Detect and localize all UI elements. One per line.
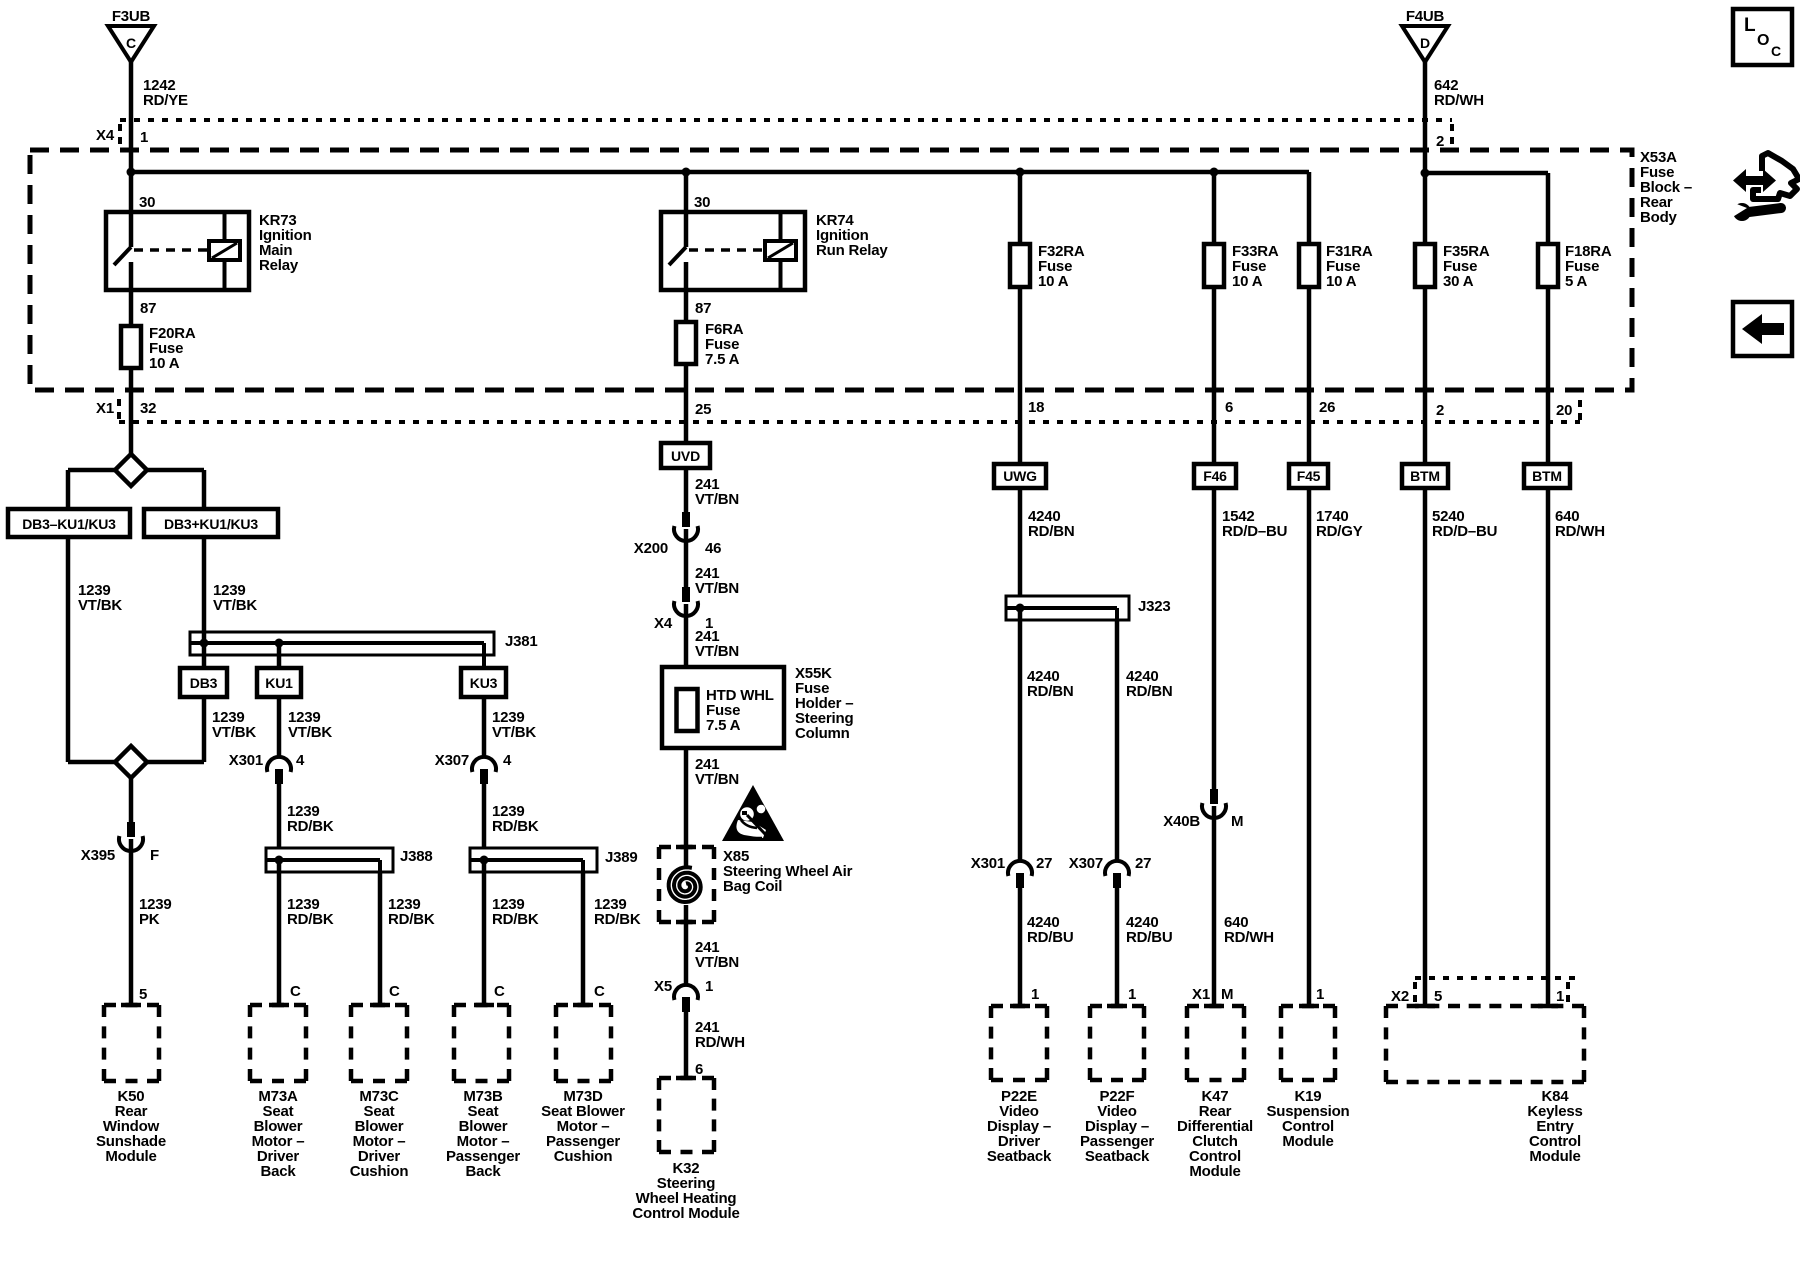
svg-text:RD/BK: RD/BK xyxy=(287,818,334,835)
wire branch F4UB to F18RA xyxy=(1425,173,1548,244)
wire label 1239 RD/BK to M73A xyxy=(287,896,334,928)
wire UWG to J323 xyxy=(1018,488,1023,596)
node box BTM left xyxy=(1402,464,1448,488)
svg-text:10 A: 10 A xyxy=(1232,273,1263,290)
svg-text:RD/WH: RD/WH xyxy=(1555,523,1605,540)
svg-text:L: L xyxy=(1744,15,1756,36)
svg-text:RD/D–BU: RD/D–BU xyxy=(1432,523,1497,540)
fuse F35RA label xyxy=(1443,243,1490,290)
wire pin30 into KR74 xyxy=(684,172,689,247)
wire X55K to X85 xyxy=(684,748,689,869)
svg-text:X40B: X40B xyxy=(1163,813,1200,830)
svg-text:C: C xyxy=(389,983,400,1000)
label X53A Fuse Block - Rear Body xyxy=(1640,149,1692,226)
component X85 dashed box xyxy=(659,847,714,922)
label X85 Steering Wheel Air Bag Coil xyxy=(723,848,853,895)
svg-text:1: 1 xyxy=(1031,986,1039,1003)
svg-text:VT/BN: VT/BN xyxy=(695,643,739,660)
wire label 1542 RD/D-BU xyxy=(1222,508,1287,540)
svg-text:Cushion: Cushion xyxy=(554,1148,613,1165)
label K47 Rear Differential Clutch Control Module xyxy=(1177,1088,1253,1180)
wire label 241 VT/BN (1) xyxy=(695,476,739,508)
wire F20RA to X1 pin 32 xyxy=(129,368,134,454)
label P22F Video Display Passenger Seatback xyxy=(1080,1088,1154,1165)
wire label 1239 VT/BK left xyxy=(78,582,122,614)
airbag warning triangle xyxy=(722,785,784,841)
label K50 Rear Window Sunshade Module xyxy=(96,1088,166,1165)
fuse block X53A dashed outline xyxy=(30,150,1632,390)
connector X5 symbol xyxy=(674,985,698,1012)
svg-text:J323: J323 xyxy=(1138,598,1171,615)
connector X1 end bracket right xyxy=(1578,400,1582,422)
connector X395 symbol xyxy=(119,822,143,851)
fuse F33RA label xyxy=(1232,243,1279,290)
svg-text:Back: Back xyxy=(465,1163,501,1180)
svg-text:RD/WH: RD/WH xyxy=(1434,92,1484,109)
svg-text:VT/BN: VT/BN xyxy=(695,580,739,597)
wire label 1239 RD/BK (above J388) xyxy=(287,803,334,835)
harness routing icon (arrows and wrench) xyxy=(1729,153,1799,221)
wire label 640 RD/WH (K47) xyxy=(1224,914,1274,946)
svg-text:J389: J389 xyxy=(605,849,638,866)
node box KU3 xyxy=(461,668,506,697)
svg-text:X4: X4 xyxy=(654,615,673,632)
svg-text:C: C xyxy=(126,35,136,51)
svg-text:RD/WH: RD/WH xyxy=(1224,929,1274,946)
junction node at KR74 xyxy=(682,168,691,177)
wire bus drop to F31RA xyxy=(1307,172,1312,244)
svg-text:6: 6 xyxy=(1225,399,1233,416)
svg-text:F: F xyxy=(150,847,159,864)
svg-text:F4UB: F4UB xyxy=(1406,8,1445,25)
junction node J389 xyxy=(480,856,489,865)
wire F31RA to F45 xyxy=(1307,287,1312,464)
svg-text:RD/YE: RD/YE xyxy=(143,92,188,109)
wire bus to F33RA xyxy=(1212,172,1217,244)
wire label 1239 RD/BK to M73D xyxy=(594,896,641,928)
wire label 1239 VT/BK below KU1 xyxy=(288,709,332,741)
svg-text:Seatback: Seatback xyxy=(987,1148,1052,1165)
svg-text:87: 87 xyxy=(140,300,156,317)
wire label 241 RD/WH xyxy=(695,1019,745,1051)
svg-text:F46: F46 xyxy=(1203,468,1227,484)
svg-text:Module: Module xyxy=(1282,1133,1333,1150)
svg-text:X1: X1 xyxy=(96,400,114,417)
label M73C Seat Blower Motor Driver Cushion xyxy=(350,1088,409,1180)
svg-text:1: 1 xyxy=(1128,986,1136,1003)
connector X4 end bracket right xyxy=(1450,124,1454,146)
svg-text:30: 30 xyxy=(139,194,155,211)
junction node J381 DB3 xyxy=(200,639,209,648)
component P22E dashed box xyxy=(991,1006,1047,1080)
wire label 4240 RD/BN (top) xyxy=(1028,508,1075,540)
fuse F32RA label xyxy=(1038,243,1085,290)
connector X2 end bracket right xyxy=(1566,982,1570,1002)
wire BTM right to X2 xyxy=(1546,488,1551,1006)
svg-text:DB3: DB3 xyxy=(190,675,218,691)
relay KR74 switch blade xyxy=(669,247,686,265)
svg-text:RD/BN: RD/BN xyxy=(1027,683,1074,700)
svg-text:C: C xyxy=(290,983,301,1000)
svg-text:30 A: 30 A xyxy=(1443,273,1474,290)
wire F35RA to BTM xyxy=(1423,287,1428,464)
svg-text:2: 2 xyxy=(1436,133,1444,150)
svg-text:30: 30 xyxy=(694,194,710,211)
svg-text:RD/BK: RD/BK xyxy=(492,818,539,835)
svg-text:20: 20 xyxy=(1556,402,1572,419)
svg-text:10 A: 10 A xyxy=(1038,273,1069,290)
connector X301 pin27 symbol xyxy=(1008,861,1032,888)
connector X307 pin27 symbol xyxy=(1105,861,1129,888)
connector X200 symbol xyxy=(674,512,698,541)
svg-text:RD/WH: RD/WH xyxy=(695,1034,745,1051)
wire F3UB down to X4 xyxy=(129,62,134,120)
svg-text:X200: X200 xyxy=(634,540,668,557)
svg-text:1: 1 xyxy=(1556,988,1564,1005)
fuse F18RA xyxy=(1538,244,1558,287)
entry tick X85 top xyxy=(676,845,696,850)
wire BTM left to X2 xyxy=(1423,488,1428,1006)
svg-text:Back: Back xyxy=(260,1163,296,1180)
svg-text:Relay: Relay xyxy=(259,257,299,274)
wire label 4240 RD/BU left xyxy=(1027,914,1074,946)
wire F45 to K19 xyxy=(1307,488,1312,1006)
label M73B Seat Blower Motor Passenger Back xyxy=(446,1088,520,1180)
component K84 dashed box xyxy=(1386,1006,1584,1082)
power triangle F4UB (D) xyxy=(1402,8,1448,62)
svg-text:RD/BU: RD/BU xyxy=(1027,929,1074,946)
wire J381 to KU1 box xyxy=(277,643,282,668)
svg-text:RD/GY: RD/GY xyxy=(1316,523,1363,540)
label M73D Seat Blower Motor Passenger Cushion xyxy=(541,1088,625,1165)
component M73B dashed box xyxy=(454,1005,509,1081)
svg-text:46: 46 xyxy=(705,540,721,557)
entry tick X85 bottom xyxy=(676,920,696,925)
node box F45 xyxy=(1289,464,1328,488)
back arrow icon xyxy=(1733,302,1792,356)
fuse F20RA label xyxy=(149,325,196,372)
svg-text:C: C xyxy=(1771,43,1781,59)
junction node at F4UB xyxy=(1421,169,1430,178)
label K32 Steering Wheel Heating Control Module xyxy=(632,1160,739,1222)
relay KR74 coil xyxy=(765,212,796,290)
connector X4 end bracket left xyxy=(118,124,122,146)
wire J388 to M73A xyxy=(277,860,282,1005)
svg-text:J381: J381 xyxy=(505,633,538,650)
component M73D dashed box xyxy=(556,1005,611,1081)
svg-text:7.5 A: 7.5 A xyxy=(706,717,741,734)
svg-text:RD/BN: RD/BN xyxy=(1028,523,1075,540)
node box BTM right xyxy=(1524,464,1570,488)
svg-text:KU3: KU3 xyxy=(470,675,498,691)
svg-text:X307: X307 xyxy=(1069,855,1103,872)
wire X307 to J389 xyxy=(482,784,487,848)
wire label 241 VT/BN (5) xyxy=(695,939,739,971)
entry tick K50 xyxy=(121,1003,141,1008)
wire label 241 VT/BN (2) xyxy=(695,565,739,597)
component M73C dashed box xyxy=(351,1005,407,1081)
svg-text:26: 26 xyxy=(1319,399,1335,416)
svg-text:VT/BN: VT/BN xyxy=(695,771,739,788)
svg-text:RD/BK: RD/BK xyxy=(388,911,435,928)
svg-text:VT/BN: VT/BN xyxy=(695,491,739,508)
wire J388 to M73C xyxy=(378,872,383,1005)
svg-text:X2: X2 xyxy=(1391,988,1409,1005)
svg-text:Module: Module xyxy=(1529,1148,1580,1165)
junction node J381 KU1 xyxy=(275,639,284,648)
entry tick K84 pin5 xyxy=(1415,1004,1435,1009)
component P22F dashed box xyxy=(1090,1006,1144,1080)
svg-text:Run Relay: Run Relay xyxy=(816,242,888,259)
wire label 4240 RD/BU right xyxy=(1126,914,1173,946)
node box DB3+KU1/KU3 xyxy=(144,509,278,537)
wire lower diamond to X395 xyxy=(129,778,134,822)
svg-text:DB3–KU1/KU3: DB3–KU1/KU3 xyxy=(22,516,116,532)
svg-text:10 A: 10 A xyxy=(1326,273,1357,290)
fuse F33RA xyxy=(1204,244,1224,287)
node box KU1 xyxy=(257,668,301,697)
wire bus to F32RA xyxy=(1018,172,1023,244)
svg-text:10 A: 10 A xyxy=(149,355,180,372)
svg-text:BTM: BTM xyxy=(1410,468,1440,484)
fuse F32RA xyxy=(1010,244,1030,287)
wire F4UB down to X4 xyxy=(1423,62,1428,150)
svg-text:RD/BK: RD/BK xyxy=(594,911,641,928)
component K32 dashed box xyxy=(659,1078,714,1152)
fuse F20RA xyxy=(121,326,141,368)
label K19 Suspension Control Module xyxy=(1266,1088,1349,1150)
svg-text:VT/BN: VT/BN xyxy=(695,954,739,971)
svg-text:M: M xyxy=(1231,813,1243,830)
junction node at F32RA xyxy=(1016,168,1025,177)
svg-text:Module: Module xyxy=(1189,1163,1240,1180)
fuse holder X55K box xyxy=(662,667,784,748)
svg-text:Body: Body xyxy=(1640,209,1678,226)
svg-text:M: M xyxy=(1221,986,1233,1003)
junction node J323 xyxy=(1016,604,1025,613)
svg-text:VT/BK: VT/BK xyxy=(78,597,122,614)
wire label 1239 RD/BK to M73C xyxy=(388,896,435,928)
entry tick M73C xyxy=(370,1003,390,1008)
node box F46 xyxy=(1194,464,1236,488)
entry tick P22E xyxy=(1010,1004,1030,1009)
splice bar J323 xyxy=(1006,596,1129,620)
svg-text:VT/BK: VT/BK xyxy=(288,724,332,741)
wire F32RA to UWG xyxy=(1018,287,1023,464)
wire label 241 VT/BN (3) xyxy=(695,628,739,660)
wire label 241 VT/BN (4) xyxy=(695,756,739,788)
wire label 1740 RD/GY xyxy=(1316,508,1363,540)
splice bar J389 xyxy=(470,848,597,872)
svg-text:F45: F45 xyxy=(1297,468,1321,484)
svg-text:UVD: UVD xyxy=(671,448,700,464)
relay KR73 actuation dashed link xyxy=(134,248,209,252)
svg-text:RD/D–BU: RD/D–BU xyxy=(1222,523,1287,540)
label HTD WHL Fuse 7.5A xyxy=(706,687,774,734)
svg-text:4: 4 xyxy=(503,752,512,769)
connector X4 boundary line xyxy=(120,118,1452,122)
label M73A Seat Blower Motor Driver Back xyxy=(252,1088,305,1180)
wire label 1239 RD/BK to M73B xyxy=(492,896,539,928)
fuse F6RA label xyxy=(705,321,744,368)
connector X1 boundary line xyxy=(119,420,1580,424)
fuse F18RA label xyxy=(1565,243,1612,290)
relay KR73 switch blade xyxy=(114,247,131,265)
wire X200 to X4 xyxy=(684,529,689,587)
svg-text:6: 6 xyxy=(695,1061,703,1078)
svg-text:X301: X301 xyxy=(971,855,1005,872)
wire X395 to K50 xyxy=(129,839,134,1005)
entry tick K19 xyxy=(1299,1004,1319,1009)
wire X4 to X55K xyxy=(684,604,689,667)
wire J323 to X301 27 xyxy=(1018,608,1023,862)
wire label 4240 RD/BN left xyxy=(1027,668,1074,700)
svg-text:BTM: BTM xyxy=(1532,468,1562,484)
wire X301 to J388 xyxy=(277,784,282,848)
svg-text:5 A: 5 A xyxy=(1565,273,1588,290)
wire X85 to X5 xyxy=(684,905,689,986)
wire J381 to DB3 box xyxy=(202,643,207,668)
connector X40B symbol xyxy=(1202,789,1226,818)
svg-text:F3UB: F3UB xyxy=(112,8,151,25)
svg-text:RD/BU: RD/BU xyxy=(1126,929,1173,946)
wire KR74 87 to F6RA xyxy=(684,262,689,322)
svg-text:Seatback: Seatback xyxy=(1085,1148,1150,1165)
svg-text:O: O xyxy=(1757,32,1769,49)
splice bar J388 xyxy=(266,848,393,872)
relay KR74 label xyxy=(816,212,888,259)
wire X5 to K32 xyxy=(684,1012,689,1078)
svg-text:Column: Column xyxy=(795,725,850,742)
svg-text:X395: X395 xyxy=(81,847,115,864)
svg-text:1: 1 xyxy=(1316,986,1324,1003)
entry tick M73A xyxy=(269,1003,289,1008)
splice diamond upper xyxy=(115,454,147,486)
entry tick P22F xyxy=(1107,1004,1127,1009)
entry tick K47 xyxy=(1204,1004,1224,1009)
svg-text:X307: X307 xyxy=(435,752,469,769)
bus wire inside fuse block xyxy=(131,170,1309,175)
entry tick K84 pin1 xyxy=(1538,1004,1558,1009)
svg-text:18: 18 xyxy=(1028,399,1044,416)
node box UWG xyxy=(994,464,1046,488)
svg-text:X4: X4 xyxy=(96,127,115,144)
label X55K Fuse Holder Steering Column xyxy=(795,665,853,742)
fuse F31RA label xyxy=(1326,243,1373,290)
svg-text:C: C xyxy=(494,983,505,1000)
wire diamond right branch xyxy=(147,470,204,509)
relay KR73 coil xyxy=(209,212,240,290)
svg-text:RD/BK: RD/BK xyxy=(287,911,334,928)
LOC reference icon xyxy=(1733,9,1792,65)
fuse F35RA xyxy=(1415,244,1435,287)
splice diamond lower xyxy=(68,746,204,778)
splice bar J381 xyxy=(190,632,494,668)
label K84 Keyless Entry Control Module xyxy=(1527,1088,1582,1165)
connector X307 pin4 symbol xyxy=(472,757,496,784)
wire label 1239 VT/BK right xyxy=(213,582,257,614)
wire DB3+ down to J381 xyxy=(202,537,207,643)
wire label 1239 VT/BK below DB3 xyxy=(212,709,256,741)
wire pin30 into KR73 xyxy=(129,172,134,247)
svg-text:87: 87 xyxy=(695,300,711,317)
wire F4UB through block xyxy=(1423,150,1428,244)
wire J323 to X307 27 xyxy=(1115,620,1120,862)
svg-text:J388: J388 xyxy=(400,848,433,865)
wire label 642 RD/WH xyxy=(1434,77,1484,109)
wire label 1239 RD/BK (above J389) xyxy=(492,803,539,835)
wire J389 to M73D xyxy=(581,872,586,1005)
connector X4 inline symbol xyxy=(674,587,698,616)
wire KU3 down to X307 xyxy=(482,697,487,758)
svg-text:5: 5 xyxy=(1434,988,1442,1005)
svg-text:DB3+KU1/KU3: DB3+KU1/KU3 xyxy=(164,516,258,532)
svg-text:27: 27 xyxy=(1135,855,1151,872)
svg-text:X5: X5 xyxy=(654,978,672,995)
svg-text:2: 2 xyxy=(1436,402,1444,419)
svg-text:UWG: UWG xyxy=(1003,468,1037,484)
junction node J388 xyxy=(275,856,284,865)
label P22E Video Display Driver Seatback xyxy=(987,1088,1052,1165)
wire F3UB X4 to bus xyxy=(129,120,134,172)
connector X2 boundary line xyxy=(1415,976,1575,980)
wire label 4240 RD/BN right xyxy=(1126,668,1173,700)
wire label 1242 RD/YE xyxy=(143,77,188,109)
component M73A dashed box xyxy=(250,1005,306,1081)
node box UVD xyxy=(661,443,710,468)
wire F33RA to F46 xyxy=(1212,287,1217,464)
power triangle F3UB (C) xyxy=(108,8,154,62)
connector X2 end bracket left xyxy=(1413,982,1417,1002)
entry tick K32 xyxy=(676,1076,696,1081)
connector X1 end bracket left xyxy=(117,399,121,421)
wire diamond left branch xyxy=(68,470,115,509)
svg-text:5: 5 xyxy=(139,986,147,1003)
component K47 dashed box xyxy=(1187,1006,1244,1080)
wire label 640 RD/WH (K84) xyxy=(1555,508,1605,540)
junction node at F3UB feed xyxy=(127,168,136,177)
entry tick M73B xyxy=(474,1003,494,1008)
svg-text:X301: X301 xyxy=(229,752,263,769)
connector X301 pin4 symbol xyxy=(267,757,291,784)
component K19 dashed box xyxy=(1281,1006,1335,1080)
wire F46 to X40B xyxy=(1212,488,1217,789)
svg-text:VT/BK: VT/BK xyxy=(213,597,257,614)
entry tick M73D xyxy=(573,1003,593,1008)
relay KR73 box xyxy=(106,212,249,290)
svg-text:27: 27 xyxy=(1036,855,1052,872)
svg-text:X1: X1 xyxy=(1192,986,1210,1003)
wire J389 to M73B xyxy=(482,860,487,1005)
relay KR74 actuation dashed link xyxy=(689,248,765,252)
fuse F31RA xyxy=(1299,244,1319,287)
svg-text:4: 4 xyxy=(296,752,305,769)
svg-text:D: D xyxy=(1420,35,1430,51)
fuse HTD WHL xyxy=(677,689,698,731)
svg-text:RD/BN: RD/BN xyxy=(1126,683,1173,700)
wire DB3- down xyxy=(66,537,71,762)
svg-text:1: 1 xyxy=(140,129,148,146)
component K50 dashed box xyxy=(104,1005,159,1081)
node box DB3 xyxy=(180,668,227,697)
wire label 1239 VT/BK below KU3 xyxy=(492,709,536,741)
svg-text:Module: Module xyxy=(105,1148,156,1165)
wire F6RA to X1 pin 25 xyxy=(684,364,689,443)
wire X307 to P22F xyxy=(1115,888,1120,1006)
steering wheel air bag coil spiral xyxy=(669,867,701,902)
svg-text:32: 32 xyxy=(140,400,156,417)
fuse F6RA xyxy=(676,322,696,364)
